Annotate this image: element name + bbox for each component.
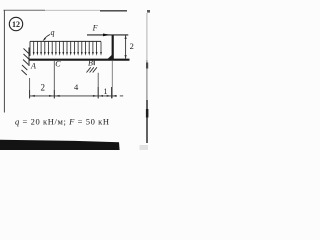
svg-text:F: F	[92, 23, 98, 32]
svg-text:C: C	[55, 60, 61, 69]
svg-text:12: 12	[12, 20, 20, 29]
svg-text:A: A	[30, 61, 36, 70]
svg-text:1: 1	[104, 87, 108, 96]
svg-text:2: 2	[41, 83, 46, 93]
svg-text:q = 20 кН/м; F = 50 кН: q = 20 кН/м; F = 50 кН	[15, 116, 109, 126]
svg-text:q: q	[51, 28, 55, 37]
svg-text:2: 2	[130, 41, 134, 51]
svg-text:B: B	[88, 59, 93, 68]
